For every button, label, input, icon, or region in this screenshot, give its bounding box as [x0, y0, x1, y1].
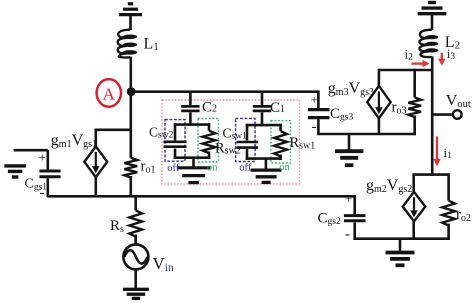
ground (M2 source)	[386, 251, 415, 255]
Rsw2 on-state box (green dotted)	[198, 119, 219, 163]
tee bar network 2	[246, 124, 282, 127]
wire to gm1Vgs1	[96, 130, 131, 147]
wire rail to Rs	[134, 196, 137, 210]
Vin sine wave	[124, 250, 147, 264]
resistor Rsw1	[274, 131, 287, 156]
wire to ground network 2	[265, 159, 268, 170]
bottom rail (source node)	[48, 195, 355, 198]
wire L1 to node A down to ro1	[130, 57, 133, 158]
wire rail corner down to Cgs3	[317, 90, 320, 108]
wire ro1 to bottom rail	[130, 176, 133, 197]
ground (below Vin)	[123, 288, 149, 291]
wire M3 drain top bar	[379, 69, 433, 72]
wire stub to gm2	[412, 173, 415, 192]
wire stub to ro3	[413, 69, 416, 98]
source Vin circle	[123, 244, 148, 269]
Rsw1 on-state box (green dotted)	[271, 121, 291, 163]
svg-text:A: A	[103, 84, 116, 103]
tee bar network 1	[174, 123, 211, 126]
wire ground to L1	[129, 16, 132, 30]
bottom bar network 2	[246, 157, 282, 160]
node A junction dot	[127, 87, 136, 96]
resistor Rsw2	[203, 131, 216, 153]
ground (M3 source)	[335, 149, 364, 153]
wire to ground (M2 source)	[399, 239, 402, 251]
wire C2 to tee	[189, 112, 192, 126]
dependent source gm3Vgs3	[367, 86, 390, 118]
current arrow i1	[436, 136, 438, 159]
resistor ro2	[442, 201, 455, 226]
wire ro3 to bottom	[413, 116, 416, 136]
dependent source gm1Vgs1	[84, 146, 107, 177]
svg-text:-: -	[40, 185, 45, 201]
inductor L1	[118, 30, 138, 58]
Vout terminal circle	[453, 110, 462, 119]
resistor ro3	[408, 98, 421, 118]
wire Rsw1 to bottom bar	[279, 155, 282, 160]
wire to ground (M3 source)	[348, 134, 351, 150]
svg-text:+: +	[345, 191, 352, 206]
wire to ground network 1	[192, 158, 195, 167]
wire ro2 to bottom bar	[447, 224, 450, 240]
wire gm1 to rail	[95, 177, 98, 197]
current arrow i2	[412, 62, 424, 64]
ground (left, Cgs1 gate)	[4, 164, 26, 167]
wire right branch to Rsw2	[208, 123, 211, 130]
top rail from node A to Cgs3	[130, 90, 319, 93]
capacitor Cgs3	[308, 110, 330, 118]
switch bank annotation box (red dotted)	[162, 100, 300, 184]
resistor ro1	[124, 158, 137, 178]
wire to Vout terminal	[432, 113, 453, 116]
wire left branch to Csw2	[174, 123, 177, 140]
ground (switch network 2)	[251, 168, 282, 171]
svg-text:+: +	[311, 92, 318, 107]
svg-text:-: -	[312, 119, 317, 135]
wire M2 drain top bar	[414, 173, 449, 176]
wire Cgs1 to rail	[46, 178, 49, 197]
dependent source gm2Vgs2	[403, 192, 426, 222]
wire stub to ro2	[447, 173, 450, 200]
capacitor C1	[253, 106, 271, 111]
wire Csw2 to bottom bar	[174, 149, 177, 159]
bottom bar network 1	[174, 156, 211, 159]
svg-text:+: +	[39, 150, 46, 165]
bottom bar M2 source	[353, 237, 450, 240]
capacitor Csw2	[164, 142, 187, 147]
capacitor Csw1	[237, 142, 259, 148]
wire gm2 to bottom bar	[412, 221, 415, 240]
Csw2 off-state box (blue dashed)	[165, 120, 185, 162]
wire Cgs3 to M3 source rail	[317, 119, 415, 134]
wire left branch to Csw1	[246, 124, 249, 141]
ground (switch network 1)	[177, 166, 211, 169]
wire C1 to tee	[261, 112, 264, 126]
wire left ground to Cgs1	[14, 149, 48, 170]
wire right branch to Rsw1	[279, 124, 282, 131]
wire Vin to ground	[134, 269, 137, 288]
svg-text:on: on	[279, 162, 290, 173]
wire rail to C1	[261, 92, 264, 106]
svg-text:-: -	[345, 227, 350, 243]
wire Rs to Vin	[134, 235, 137, 245]
wire stub to gm3	[378, 69, 381, 87]
inductor L2	[419, 30, 438, 57]
ground (top, above L2)	[418, 12, 447, 15]
wire L2 down to gm2 stage	[431, 56, 434, 175]
svg-text:off: off	[239, 162, 252, 173]
ground (top, above L1)	[119, 13, 142, 16]
wire rail to C2	[189, 92, 192, 106]
wire Rsw2 to bottom bar	[208, 151, 211, 159]
wire ground to L2	[431, 15, 434, 30]
svg-text:off: off	[167, 163, 180, 174]
capacitor Cgs2	[344, 216, 366, 221]
wire Cgs2 to bottom bar	[353, 222, 356, 240]
capacitor C2	[181, 106, 199, 111]
wire Csw1 to bottom bar	[246, 149, 249, 160]
current arrow i3	[441, 53, 443, 60]
wire gm3 to bottom	[378, 118, 381, 134]
wire rail down to Cgs2	[353, 195, 356, 214]
resistor Rs	[129, 210, 142, 236]
capacitor Cgs1	[39, 171, 60, 177]
node A circle	[97, 79, 121, 107]
svg-text:on: on	[207, 162, 218, 173]
Csw1 off-state box (blue dashed)	[236, 118, 256, 161]
